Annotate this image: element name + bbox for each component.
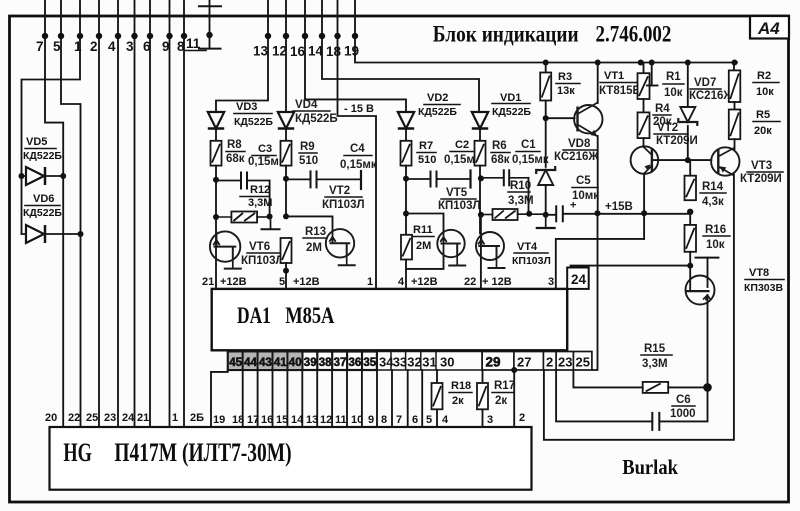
svg-text:43: 43: [259, 357, 272, 369]
svg-text:10к: 10к: [706, 239, 725, 251]
svg-text:2к: 2к: [495, 395, 507, 407]
svg-text:КТ209И: КТ209И: [656, 135, 698, 147]
svg-text:А4: А4: [757, 19, 780, 38]
svg-text:5: 5: [426, 414, 432, 426]
svg-text:17: 17: [247, 414, 259, 426]
resistor R17 2k on wire to HG 3: [482, 370, 484, 427]
svg-text:М85А: М85А: [285, 303, 335, 328]
transistor VT5: [437, 230, 464, 257]
ground tie at R12 right: [270, 217, 272, 230]
svg-text:14: 14: [291, 414, 304, 426]
svg-text:VT3: VT3: [751, 160, 772, 172]
transistor VT8 KP303V: [686, 276, 715, 305]
svg-text:2: 2: [546, 355, 553, 370]
svg-text:КП103Л: КП103Л: [438, 200, 481, 212]
svg-text:4: 4: [398, 276, 405, 288]
svg-text:VT1: VT1: [604, 70, 624, 82]
svg-text:23: 23: [104, 412, 116, 424]
svg-text:КП103Л: КП103Л: [241, 255, 284, 267]
transistor VT3 KT209I: [734, 139, 736, 149]
pin 16 wire to VD2: [305, 0, 406, 112]
svg-text:15: 15: [276, 414, 288, 426]
svg-text:3,3М: 3,3М: [642, 358, 668, 370]
cell wire to HG 9: [376, 370, 378, 427]
transistor VT7: [326, 229, 354, 257]
svg-text:R15: R15: [644, 343, 666, 355]
svg-text:18: 18: [232, 414, 244, 426]
cell wire to HG 15: [286, 370, 288, 427]
cell wire to HG 18: [242, 370, 244, 427]
resistor R18 2k on wire to HG 5/4: [436, 370, 438, 427]
svg-text:10: 10: [351, 414, 363, 426]
svg-text:Burlak: Burlak: [622, 455, 678, 479]
svg-text:3: 3: [548, 276, 554, 288]
svg-text:32: 32: [407, 355, 421, 370]
svg-text:R6: R6: [492, 140, 507, 152]
svg-text:4: 4: [442, 414, 449, 426]
thin cells 34 33 32 31 30: [377, 352, 482, 371]
svg-text:VD2: VD2: [427, 92, 448, 104]
svg-text:22: 22: [464, 276, 476, 288]
svg-text:44: 44: [244, 357, 257, 369]
transistor VT2 KT209I: [643, 138, 645, 147]
wire R3 to VD8 node: [545, 101, 547, 168]
svg-text:VD4: VD4: [295, 99, 318, 111]
DA1 pin 24 box: [567, 268, 589, 289]
resistor R9 510: [281, 141, 292, 166]
DA1 pin 24 wire to VT8 gate: [571, 266, 691, 268]
svg-text:35: 35: [363, 357, 376, 369]
svg-text:R8: R8: [227, 139, 242, 151]
cell 45 wire to HG 19: [211, 370, 228, 427]
node pin 5: [58, 33, 64, 39]
wire VD3 to R8: [215, 130, 217, 141]
svg-text:37: 37: [334, 357, 347, 369]
svg-text:25: 25: [86, 412, 98, 424]
svg-text:КД522Б: КД522Б: [23, 207, 62, 219]
svg-text:13: 13: [306, 414, 318, 426]
svg-text:24: 24: [571, 272, 587, 287]
svg-text:R10: R10: [510, 180, 531, 192]
svg-text:DA1: DA1: [237, 303, 271, 328]
svg-text:R9: R9: [300, 141, 315, 153]
svg-text:+12В: +12В: [411, 276, 438, 288]
resistor R6 68k: [475, 141, 486, 166]
wire R9 to node: [285, 166, 287, 217]
svg-text:HG: HG: [63, 438, 92, 467]
svg-text:18: 18: [326, 44, 342, 59]
svg-text:2: 2: [90, 39, 98, 54]
svg-text:VT2: VT2: [329, 185, 350, 197]
svg-text:31: 31: [422, 355, 436, 370]
svg-text:29: 29: [486, 355, 501, 370]
svg-text:R18: R18: [451, 380, 471, 392]
zener VD7: [687, 63, 689, 108]
svg-text:12: 12: [320, 414, 332, 426]
svg-text:КД522Б: КД522Б: [418, 106, 457, 118]
resistor R14 4.3k: [689, 160, 691, 176]
svg-text:VT4: VT4: [517, 241, 538, 253]
svg-text:36: 36: [349, 357, 362, 369]
svg-text:КС216Ж: КС216Ж: [689, 90, 734, 102]
wire R7 to node: [405, 166, 407, 235]
svg-text:12: 12: [272, 44, 287, 59]
svg-text:КП303В: КП303В: [744, 282, 783, 294]
svg-text:21: 21: [202, 276, 214, 288]
svg-text:R11: R11: [413, 224, 433, 236]
svg-text:R7: R7: [419, 140, 433, 152]
DA1 pin3 +15V wire: [556, 239, 644, 289]
svg-text:R1: R1: [666, 71, 681, 83]
svg-text:8: 8: [177, 39, 185, 54]
svg-text:40: 40: [289, 357, 302, 369]
resistor R2 10k: [733, 63, 735, 71]
svg-text:45: 45: [229, 357, 242, 369]
svg-text:7: 7: [36, 39, 44, 54]
resistor R1 10k: [643, 63, 645, 74]
wire R8 to node: [215, 166, 217, 217]
svg-text:КТ815Б: КТ815Б: [599, 85, 641, 97]
svg-text:3,3М: 3,3М: [508, 195, 534, 207]
svg-text:25: 25: [576, 355, 590, 370]
svg-text:41: 41: [274, 357, 287, 369]
svg-text:11: 11: [186, 36, 201, 51]
svg-text:C6: C6: [676, 394, 691, 406]
svg-text:+12В: +12В: [293, 276, 320, 288]
svg-text:10к: 10к: [756, 86, 774, 98]
svg-text:КД522Б: КД522Б: [23, 150, 62, 162]
ground symbol below VD8: [545, 215, 547, 228]
node pin 4: [115, 33, 121, 39]
svg-text:R14: R14: [702, 181, 724, 193]
svg-text:30: 30: [440, 355, 454, 370]
resistor R7 510: [401, 141, 412, 166]
svg-text:П417М (ИЛТ7-30М): П417М (ИЛТ7-30М): [114, 438, 291, 467]
svg-text:1000: 1000: [670, 408, 696, 420]
svg-text:1: 1: [367, 276, 373, 288]
cell wire to HG 14: [301, 370, 303, 427]
svg-text:19: 19: [213, 414, 225, 426]
wire VD2 to R7: [405, 130, 407, 141]
cell wire to HG 11: [346, 370, 348, 427]
svg-text:КД522Б: КД522Б: [295, 113, 338, 125]
svg-text:VD7: VD7: [694, 77, 716, 89]
wire R15 right to VT8 source node: [668, 386, 707, 388]
svg-text:7: 7: [396, 414, 402, 426]
svg-text:24: 24: [122, 412, 135, 424]
pin 1 wire to VD5/VD6 anodes: [22, 0, 81, 234]
svg-text:VD5: VD5: [26, 136, 47, 148]
cell wire to HG 6: [421, 370, 423, 427]
pin 8 wire to HG pin 2Б: [183, 0, 185, 427]
svg-text:2.746.002: 2.746.002: [596, 22, 672, 47]
svg-text:10к: 10к: [664, 87, 683, 99]
svg-text:6: 6: [412, 414, 418, 426]
svg-text:2Б: 2Б: [190, 412, 204, 424]
svg-text:510: 510: [418, 154, 436, 166]
pin 14 wire to VD1: [322, 0, 479, 112]
wire VD4 to R9: [285, 130, 287, 141]
node pin 2: [96, 33, 102, 39]
pin 3 wire to HG pin 24: [134, 0, 136, 427]
svg-text:13: 13: [253, 44, 269, 59]
svg-text:22: 22: [68, 412, 80, 424]
svg-text:R5: R5: [756, 109, 770, 121]
svg-text:21: 21: [137, 412, 149, 424]
svg-text:33: 33: [393, 355, 407, 370]
transistor VT4: [480, 215, 482, 289]
svg-text:4,3к: 4,3к: [702, 196, 724, 208]
svg-text:510: 510: [299, 155, 318, 167]
svg-text:19: 19: [344, 44, 359, 59]
node pin 3: [131, 33, 137, 39]
cell wire to HG 10: [361, 370, 363, 427]
svg-text:R17: R17: [494, 380, 515, 392]
wire node to VT5 gate loop: [406, 214, 444, 230]
cell wire to HG 16: [272, 370, 274, 427]
DA1 bottom pin cells row: [228, 352, 377, 371]
cell wire to HG 17: [257, 370, 259, 427]
node pin 7: [42, 33, 48, 39]
svg-text:10мк: 10мк: [572, 190, 599, 202]
svg-text:VT6: VT6: [249, 241, 270, 253]
pin 19 wire / top bus: [355, 0, 737, 63]
svg-text:2М: 2М: [416, 240, 431, 252]
cell wire to HG 13: [316, 370, 318, 427]
node pin 1: [77, 33, 83, 39]
VT2 base wire to VD7 node: [652, 159, 712, 161]
IC DA1 M85A box: [212, 289, 568, 350]
node pin 9: [166, 33, 172, 39]
stub node right of R1: [651, 63, 653, 85]
svg-text:VD8: VD8: [568, 138, 591, 150]
svg-text:2М: 2М: [306, 242, 322, 254]
resistor R8: [211, 141, 222, 166]
svg-text:R3: R3: [558, 71, 572, 83]
svg-text:6: 6: [143, 39, 151, 54]
svg-text:2к: 2к: [452, 395, 464, 407]
svg-text:16: 16: [261, 414, 273, 426]
pin 11 terminal: [209, 0, 211, 49]
resistor R13 2M: [283, 213, 289, 219]
svg-text:R4: R4: [655, 103, 670, 115]
svg-text:20: 20: [45, 412, 57, 424]
pin 9 wire to HG pin 1: [169, 0, 171, 427]
svg-text:0,15мк: 0,15мк: [512, 154, 549, 166]
svg-text:+ 12В: + 12В: [482, 276, 512, 288]
svg-text:КС216Ж: КС216Ж: [554, 151, 599, 163]
cell wire to HG 8: [391, 370, 393, 427]
pin 13 wire to VD3: [216, 0, 268, 112]
resistor R11 2M: [403, 211, 409, 217]
indicator HG P417M box: [50, 427, 532, 490]
pin 2 wire to HG pin 25: [98, 0, 100, 427]
svg-text:2: 2: [519, 412, 525, 424]
svg-text:C4: C4: [350, 143, 365, 155]
svg-text:16: 16: [290, 44, 306, 59]
resistor R5 20k: [734, 102, 736, 110]
svg-text:C3: C3: [258, 143, 272, 155]
node pin 6: [147, 33, 153, 39]
wire C1 right down to R10 right: [528, 178, 530, 214]
svg-text:- 15 В: - 15 В: [344, 103, 374, 115]
svg-text:VD1: VD1: [500, 92, 521, 104]
svg-text:C5: C5: [576, 175, 591, 187]
pin 12 wire to VD4: [285, 0, 287, 112]
top bus node dots: [543, 60, 549, 66]
svg-text:Блок индикации: Блок индикации: [433, 22, 579, 47]
pin 7 wire to HG pin 20: [45, 0, 63, 427]
node 29/27 to HG pin 2: [511, 367, 517, 373]
svg-text:VT2: VT2: [657, 122, 678, 134]
wire R15 left to cell 25: [573, 370, 642, 387]
svg-text:R13: R13: [305, 226, 326, 238]
pin 4 wire to HG pin 23: [117, 0, 119, 427]
svg-text:VT8: VT8: [749, 267, 769, 279]
svg-text:R12: R12: [250, 184, 270, 196]
svg-text:R2: R2: [757, 70, 771, 82]
svg-text:C2: C2: [455, 139, 469, 151]
svg-text:8: 8: [381, 414, 387, 426]
svg-text:+15В: +15В: [605, 201, 633, 213]
svg-text:VT5: VT5: [446, 187, 468, 199]
wire C3 right to R12 right: [269, 181, 271, 216]
cells row right link to +15 rail: [592, 213, 598, 370]
pin 18 wire -15V to DA1 pin 1: [338, 0, 377, 289]
wire C6 from cell 23: [556, 370, 652, 421]
svg-text:9: 9: [162, 39, 170, 54]
svg-text:27: 27: [517, 355, 531, 370]
svg-text:14: 14: [308, 44, 324, 59]
svg-text:1: 1: [172, 412, 178, 424]
pin 6 wire to HG pin 21: [149, 0, 151, 427]
svg-text:+12В: +12В: [220, 276, 247, 288]
svg-text:11: 11: [335, 414, 347, 426]
svg-text:13к: 13к: [557, 85, 575, 97]
wire R11 bottom to DA1 pin 4: [405, 260, 407, 289]
svg-text:R16: R16: [705, 224, 726, 236]
wire node to VT7 gate: [286, 216, 333, 229]
svg-text:3,3М: 3,3М: [248, 197, 272, 209]
svg-text:0,15мк: 0,15мк: [340, 159, 377, 171]
svg-text:VD3: VD3: [236, 101, 257, 113]
svg-text:0,15мк: 0,15мк: [248, 156, 285, 168]
cell wire to HG 12: [331, 370, 333, 427]
svg-text:КП103Л: КП103Л: [512, 255, 551, 267]
VT2 emitter down to pin3 rail: [643, 174, 645, 239]
wire VD1 to R6: [479, 130, 481, 141]
svg-text:3: 3: [126, 39, 134, 54]
svg-text:4: 4: [108, 39, 116, 54]
cells 29 27 2 23 25: [482, 352, 592, 371]
svg-text:C1: C1: [521, 139, 536, 151]
resistor R4 20k: [643, 99, 645, 112]
svg-text:1: 1: [74, 39, 82, 54]
svg-text:5: 5: [279, 276, 285, 288]
node pin 8: [181, 33, 187, 39]
+15V rail: [546, 214, 556, 216]
svg-text:23: 23: [558, 355, 572, 370]
svg-text:КТ209И: КТ209И: [740, 173, 782, 185]
svg-text:КД522Б: КД522Б: [234, 116, 273, 128]
svg-text:3: 3: [487, 414, 493, 426]
wire R6 to node: [479, 166, 481, 234]
transistor VT1 KT815: [546, 117, 575, 119]
cell wire to HG 7: [407, 370, 409, 427]
svg-text:20к: 20к: [754, 125, 772, 137]
svg-text:39: 39: [304, 357, 317, 369]
svg-text:5: 5: [53, 39, 61, 54]
svg-text:68к: 68к: [491, 154, 510, 166]
resistor R16 10k: [689, 212, 691, 225]
transistor VT6 KP103L: [215, 217, 217, 289]
svg-text:КД522Б: КД522Б: [492, 106, 531, 118]
A4 corner box: [750, 16, 789, 39]
svg-text:68к: 68к: [226, 153, 245, 165]
wire R16 to VT8: [689, 252, 691, 266]
VT3 emitter long wire down to cell 2 route: [544, 175, 734, 440]
svg-text:КП103Л: КП103Л: [322, 199, 365, 211]
svg-text:38: 38: [319, 357, 332, 369]
resistor R3 13k: [545, 63, 547, 73]
svg-text:VD6: VD6: [33, 193, 54, 205]
svg-text:9: 9: [368, 414, 374, 426]
pin 5 wire to HG pin 22: [61, 0, 81, 427]
